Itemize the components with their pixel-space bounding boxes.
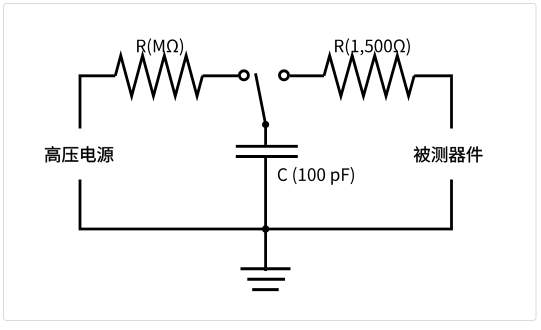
resistor R(1,500 Ohm)	[324, 56, 414, 97]
wire: capacitor C to bottom net	[264, 158, 267, 229]
wire: bottom net to ground	[264, 229, 267, 271]
wire: resistor R(1,500 Ohm) to top-right corner	[414, 74, 453, 77]
label: device under test (Chinese)	[414, 146, 483, 162]
switch S1 pole contact (right circle)	[280, 71, 289, 80]
ground bar 2	[247, 278, 285, 281]
ground bar 3	[252, 288, 279, 291]
label: high-voltage supply (Chinese)	[45, 146, 113, 162]
value label R(MOhm)	[137, 38, 183, 55]
node: switch pole junction dot	[262, 121, 269, 128]
capacitor C top plate	[236, 145, 298, 148]
value label R(1,500 Ohm)	[335, 38, 410, 55]
wire: top-left horizontal and upper-left vertical	[80, 76, 115, 129]
wire: switch pole node down to capacitor C	[264, 124, 267, 144]
value label C (100 pF)	[278, 167, 354, 185]
node: ground junction dot	[262, 225, 269, 232]
switch S1 throw contact (left circle)	[239, 71, 248, 80]
wire: switch contact to resistor R(1,500 Ohm)	[290, 74, 324, 77]
wire: resistor R(MOhm) to switch contact	[203, 74, 239, 77]
capacitor C bottom plate	[236, 155, 298, 158]
switch S1 blade	[256, 73, 266, 124]
resistor R(MOhm)	[115, 56, 202, 97]
wire: lower-left vertical and bottom-left horizontal	[79, 180, 266, 231]
ground bar 1	[241, 267, 291, 270]
wire: upper-right vertical	[450, 77, 453, 128]
wire: bottom-right horizontal and lower-right vertical	[266, 180, 453, 231]
